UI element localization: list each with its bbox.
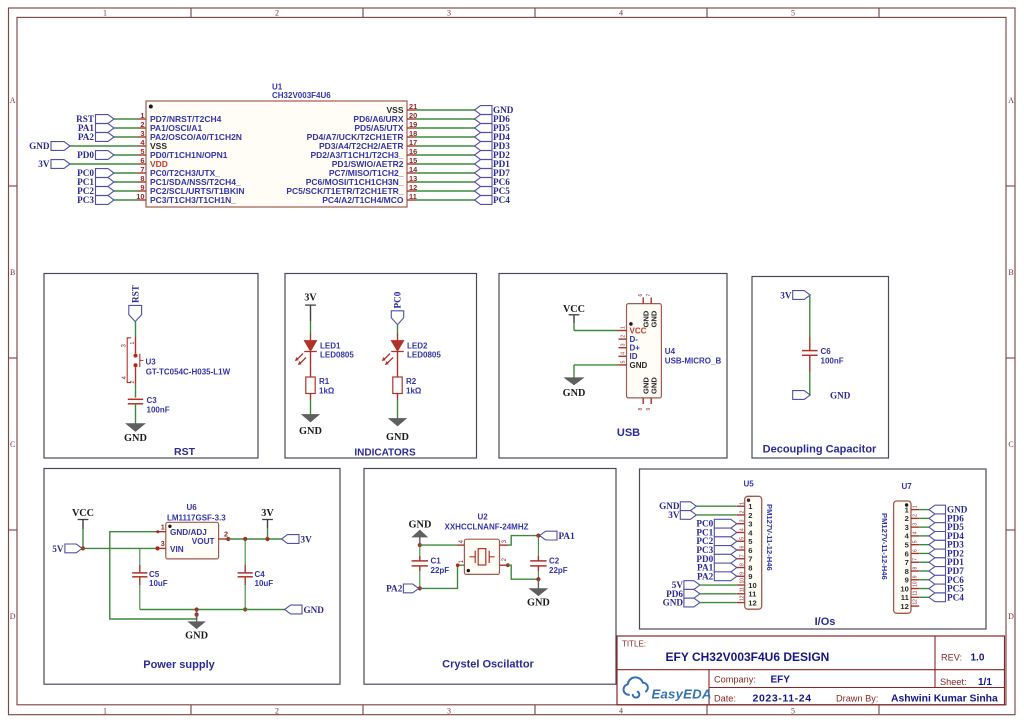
svg-text:6: 6 (905, 549, 909, 558)
svg-text:3: 3 (161, 539, 165, 548)
U5 pin 1 (737, 505, 745, 507)
svg-text:8: 8 (140, 174, 144, 183)
svg-text:B: B (10, 268, 15, 277)
wire (114, 127, 138, 129)
svg-text:EasyEDA: EasyEDA (652, 687, 712, 702)
svg-text:5V: 5V (52, 544, 64, 554)
svg-text:11: 11 (748, 590, 757, 599)
connector U5 PM127V-11-12-H46 (745, 496, 762, 609)
U1 pin 1 PD7/NRST/T2CH4 (138, 118, 146, 120)
svg-text:Decoupling Capacitor: Decoupling Capacitor (763, 444, 877, 456)
wire (114, 190, 138, 192)
svg-text:C5: C5 (149, 570, 160, 579)
svg-text:A: A (1008, 96, 1014, 105)
U1 pin 6 VDD (138, 163, 146, 165)
wire (700, 602, 737, 604)
LED LED1 LED0805 (310, 334, 312, 341)
svg-text:2023-11-24: 2023-11-24 (753, 693, 812, 705)
svg-text:D: D (1008, 612, 1014, 621)
svg-text:GND: GND (563, 388, 586, 399)
svg-text:EFY CH32V003F4U6 DESIGN: EFY CH32V003F4U6 DESIGN (666, 650, 830, 664)
U1 pin 19 PD5/A5/UTX (407, 127, 416, 129)
U5 pin 6 (737, 549, 745, 551)
svg-text:9: 9 (740, 572, 746, 575)
svg-text:3: 3 (740, 519, 746, 522)
wire bottom rail (140, 609, 285, 611)
wire (696, 514, 736, 516)
svg-text:2: 2 (140, 120, 144, 129)
svg-text:U2: U2 (478, 513, 489, 522)
svg-text:2: 2 (275, 8, 279, 17)
ground (126, 424, 145, 432)
U1 pin 2 PA1/OSCI/A1 (138, 127, 146, 129)
svg-text:9: 9 (905, 576, 909, 585)
svg-text:PC4: PC4 (493, 195, 510, 205)
wire (919, 517, 929, 519)
svg-text:PA2: PA2 (386, 584, 403, 594)
svg-text:VCC: VCC (72, 508, 94, 519)
net port PA1 (540, 531, 557, 540)
ground (302, 415, 319, 422)
svg-text:INDICATORS: INDICATORS (354, 448, 416, 459)
svg-text:GND: GND (386, 432, 409, 443)
section box INDICATORS (285, 274, 477, 459)
svg-text:2: 2 (275, 706, 279, 715)
svg-text:2: 2 (620, 335, 626, 338)
svg-text:12: 12 (913, 599, 919, 605)
junction (81, 546, 85, 550)
wire GND/ADJ loop (110, 532, 197, 619)
svg-text:2: 2 (130, 381, 136, 384)
wire (70, 145, 138, 147)
svg-text:PC0: PC0 (393, 291, 403, 308)
svg-text:LM1117GSF-3.3: LM1117GSF-3.3 (167, 513, 226, 522)
capacitor C1 22pF (419, 545, 421, 556)
svg-text:D: D (10, 612, 16, 621)
svg-text:PC3/T1CH3/T1CH1N_: PC3/T1CH3/T1CH1N_ (150, 195, 236, 205)
svg-text:6: 6 (913, 549, 919, 552)
U1 pin 4 VSS (138, 145, 146, 147)
svg-text:GND: GND (185, 631, 208, 642)
svg-text:10: 10 (900, 584, 908, 593)
ground (xtal right) (537, 579, 539, 588)
net port GND (psu) (285, 605, 302, 614)
resistor R1 1k (306, 377, 315, 394)
svg-text:8: 8 (748, 563, 752, 572)
capacitor C2 22pF (537, 536, 539, 556)
svg-text:Sheet:: Sheet: (940, 677, 967, 687)
connector U7 PM127V-11-12-H46 (894, 501, 911, 613)
wire (919, 596, 929, 598)
svg-text:9: 9 (646, 408, 652, 411)
U4 pin 4 ID (619, 355, 627, 357)
wire (574, 364, 619, 366)
svg-text:GND: GND (630, 361, 648, 370)
wire (310, 400, 312, 415)
U7 pin 5 (911, 544, 919, 546)
svg-text:7: 7 (913, 558, 919, 561)
svg-text:GND: GND (409, 520, 432, 531)
svg-text:1: 1 (913, 505, 919, 508)
svg-text:GND: GND (650, 310, 659, 327)
svg-text:3: 3 (447, 706, 451, 715)
svg-text:A: A (10, 96, 16, 105)
U1 pin 5 PD0/T1CH1N/OPN1 (138, 154, 146, 156)
svg-text:VIN: VIN (170, 545, 184, 554)
svg-text:U3: U3 (146, 358, 157, 367)
U5 pin 7 (737, 558, 745, 560)
svg-text:5: 5 (740, 537, 746, 540)
svg-text:1kΩ: 1kΩ (406, 387, 422, 396)
capacitor C5 10uF (139, 548, 141, 565)
svg-text:3: 3 (140, 129, 144, 138)
svg-text:PC4/A2/T1CH4/MCO: PC4/A2/T1CH4/MCO (322, 195, 404, 205)
svg-text:1: 1 (161, 522, 165, 531)
U5 pin 11 (737, 593, 745, 595)
svg-text:R2: R2 (406, 377, 417, 386)
svg-text:USB-MICRO_B: USB-MICRO_B (665, 357, 722, 366)
svg-text:1: 1 (130, 342, 136, 345)
wire (573, 315, 575, 323)
svg-text:22pF: 22pF (431, 566, 450, 575)
svg-text:RST: RST (174, 446, 196, 458)
svg-text:I/Os: I/Os (815, 616, 836, 628)
svg-text:C: C (1008, 440, 1013, 449)
svg-text:LED0805: LED0805 (407, 351, 441, 360)
svg-text:100nF: 100nF (821, 357, 844, 366)
wire (919, 588, 929, 590)
svg-text:Ashwini Kumar Sinha: Ashwini Kumar Sinha (891, 694, 998, 705)
U7 pin 7 (911, 561, 919, 563)
regulator U6 LM1117GSF-3.3 (166, 522, 219, 559)
U7 pin 8 (911, 570, 919, 572)
svg-text:PM127V-11-12-H46: PM127V-11-12-H46 (880, 513, 889, 580)
svg-text:C2: C2 (549, 557, 560, 566)
switch U3 GT-TC054C-H035-L1W (135, 337, 137, 354)
svg-text:7: 7 (905, 558, 909, 567)
junction (536, 577, 540, 581)
svg-text:2: 2 (905, 514, 909, 523)
wire 5V to VIN (82, 547, 157, 549)
svg-text:5: 5 (620, 360, 626, 363)
svg-text:1: 1 (103, 8, 107, 17)
crystal glyph (470, 556, 476, 558)
U1 pin 8 PC1/SDA/NSS/T2CH4_ (138, 181, 146, 183)
svg-text:U5: U5 (744, 480, 755, 489)
U5 pin 9 (737, 575, 745, 577)
wire pin3 to PA1 (508, 536, 540, 546)
resistor R2 1k (393, 377, 402, 394)
U1 pin 13 PC6/MOSI/T1CH1CH3N_ (407, 181, 416, 183)
svg-text:TITLE:: TITLE: (622, 640, 646, 649)
U3 actuator (139, 354, 141, 367)
wire (114, 136, 138, 138)
junction (418, 543, 422, 547)
svg-text:C3: C3 (147, 396, 158, 405)
svg-text:1: 1 (140, 111, 144, 120)
svg-text:6: 6 (140, 156, 144, 165)
svg-text:C: C (10, 440, 15, 449)
svg-text:C1: C1 (431, 557, 442, 566)
wire (919, 552, 929, 554)
wire (416, 154, 475, 156)
wire (416, 145, 475, 147)
svg-text:1: 1 (103, 706, 107, 715)
svg-text:LED1: LED1 (320, 342, 341, 351)
section box USB (499, 274, 727, 459)
U4 shield pins GND (bottom) (642, 398, 644, 404)
svg-text:8: 8 (905, 567, 909, 576)
svg-text:11: 11 (913, 590, 919, 595)
svg-text:GND: GND (304, 605, 325, 615)
svg-text:12: 12 (900, 602, 908, 611)
section box RST (44, 274, 258, 459)
U3 side bar pins 3-4 (127, 338, 131, 383)
section box I/Os (640, 469, 987, 629)
svg-text:GND: GND (29, 141, 50, 151)
wire PA2 to pin1 (420, 565, 465, 588)
wire (919, 535, 929, 537)
svg-text:B: B (1008, 268, 1013, 277)
U1 pin-1 marker dot (149, 105, 153, 109)
svg-text:11: 11 (740, 587, 746, 592)
U7 pin 10 (911, 588, 919, 590)
svg-text:REV:: REV: (941, 653, 962, 663)
svg-text:3V: 3V (38, 159, 50, 169)
svg-text:XXHCCLNANF-24MHZ: XXHCCLNANF-24MHZ (445, 522, 529, 531)
svg-text:GT-TC054C-H035-L1W: GT-TC054C-H035-L1W (146, 368, 231, 377)
wire VOUT to 3V (228, 538, 281, 540)
U7 pin 6 (911, 552, 919, 554)
svg-text:1kΩ: 1kΩ (319, 387, 335, 396)
wire pin2 to gnd (508, 565, 539, 579)
U2 pin 2 (500, 564, 508, 566)
svg-text:USB: USB (617, 427, 640, 439)
wire (135, 322, 137, 337)
junction (418, 586, 422, 590)
svg-text:8: 8 (740, 563, 746, 566)
U1 pin 10 PC3/T1CH3/T1CH1N_ (138, 199, 146, 201)
U1 pin 14 PC7/MISO/T1CH2_ (407, 172, 416, 174)
svg-text:2: 2 (740, 511, 746, 514)
wire (809, 372, 811, 395)
U5 pin 12 (737, 602, 745, 604)
svg-text:VOUT: VOUT (192, 537, 215, 546)
U2 pin 3 (500, 544, 508, 546)
LED LED2 LED0805 (397, 334, 399, 341)
ground (psu) (196, 610, 198, 622)
svg-text:C4: C4 (255, 570, 266, 579)
wire (135, 404, 137, 424)
svg-text:7: 7 (748, 555, 752, 564)
ground (usb) (565, 378, 584, 385)
svg-text:GND: GND (663, 598, 684, 608)
wire to pin4 (420, 544, 458, 546)
U7 pin 12 (911, 605, 919, 607)
wire (416, 190, 475, 192)
svg-text:PC3: PC3 (77, 195, 94, 205)
svg-text:2: 2 (748, 511, 752, 520)
EasyEDA logo (624, 677, 648, 697)
U1 pin 12 PC5/SCK/T1ETR/T2CH1ETR_ (407, 190, 416, 192)
wire (700, 593, 737, 595)
svg-text:Date:: Date: (714, 694, 736, 704)
svg-text:RST: RST (130, 285, 140, 303)
wire (135, 385, 137, 398)
svg-text:PA2: PA2 (697, 571, 714, 581)
capacitor C3 100nF (128, 398, 143, 400)
wire (696, 505, 736, 507)
svg-text:PA2: PA2 (78, 132, 95, 142)
svg-text:22pF: 22pF (549, 566, 568, 575)
U1 pin 15 PD1/SWIO/AETR2 (407, 163, 416, 165)
wire (416, 136, 475, 138)
svg-text:1.0: 1.0 (971, 653, 985, 664)
wire (416, 163, 475, 165)
svg-text:6: 6 (748, 546, 752, 555)
svg-text:10: 10 (740, 578, 746, 584)
wire (919, 579, 929, 581)
capacitor C4 10uF (243, 537, 247, 541)
U1 pin 7 PC0/T2CH3/UTX_ (138, 172, 146, 174)
svg-text:Company:: Company: (714, 675, 756, 685)
svg-text:GND: GND (299, 426, 322, 437)
wire (114, 199, 138, 201)
svg-text:9: 9 (748, 572, 752, 581)
wire (114, 172, 138, 174)
net port 3V (psu right) (282, 535, 300, 544)
wire (82, 529, 84, 548)
U7 pin 2 (911, 517, 919, 519)
ground (389, 419, 406, 426)
svg-text:GND: GND (650, 377, 659, 394)
section box Decoupling Capacitor (752, 277, 889, 459)
svg-text:3: 3 (905, 523, 909, 532)
wire (919, 561, 929, 563)
svg-text:4: 4 (619, 706, 623, 715)
U2 pin 4 (458, 544, 465, 546)
svg-text:4: 4 (619, 8, 623, 17)
svg-text:7: 7 (740, 554, 746, 557)
U1 pin 9 PC2/SCL/URTS/T1BKIN (138, 190, 146, 192)
U1 pin 20 PD6/A6/URX (407, 118, 416, 120)
svg-text:8: 8 (638, 408, 644, 411)
U3 contact dots (134, 354, 138, 358)
svg-text:1: 1 (740, 502, 746, 505)
svg-text:3V: 3V (780, 291, 792, 301)
junction (536, 534, 540, 538)
svg-text:Drawn By:: Drawn By: (836, 694, 878, 704)
U5 pin 8 (737, 567, 745, 569)
wire (397, 352, 399, 378)
U7 pin 9 (911, 579, 919, 581)
svg-text:1: 1 (620, 326, 626, 329)
svg-text:4: 4 (740, 528, 746, 531)
U5 pin 5 (737, 540, 745, 542)
net port GND (decoupling) (793, 391, 811, 400)
U1 pin 11 PC4/A2/T1CH4/MCO (407, 199, 416, 201)
svg-text:10: 10 (748, 581, 756, 590)
U5 pin 4 (737, 531, 745, 533)
wire (416, 199, 475, 201)
svg-text:PA1: PA1 (559, 531, 576, 541)
svg-text:GND: GND (124, 433, 147, 444)
svg-text:EFY: EFY (771, 675, 791, 686)
svg-text:12: 12 (740, 595, 746, 601)
wire (114, 118, 138, 120)
svg-text:C6: C6 (821, 347, 832, 356)
svg-text:8: 8 (913, 567, 919, 570)
svg-text:PC4: PC4 (947, 592, 964, 602)
wire (416, 172, 475, 174)
U4 pin 5 GND (619, 364, 627, 366)
op-amp U1 CH32V003F4U6 microcontroller (146, 101, 407, 207)
svg-text:4: 4 (620, 352, 626, 355)
svg-text:PM127V-11-12-H46: PM127V-11-12-H46 (765, 504, 774, 571)
wire (919, 570, 929, 572)
svg-text:100nF: 100nF (147, 406, 170, 415)
svg-text:GND: GND (830, 391, 851, 401)
wire (114, 181, 138, 183)
svg-text:3: 3 (913, 523, 919, 526)
svg-text:6: 6 (638, 294, 644, 297)
svg-text:11: 11 (901, 593, 910, 602)
wire (397, 325, 399, 334)
svg-text:3V: 3V (668, 510, 680, 520)
U5 pin 10 (737, 584, 745, 586)
junction (195, 607, 199, 611)
svg-text:U6: U6 (187, 503, 198, 512)
wire (397, 400, 399, 419)
wire (919, 526, 929, 528)
wire (700, 584, 737, 586)
U1 pin 17 PD3/A4/T2CH2/AETR (407, 145, 416, 147)
U5 pin 2 (737, 514, 745, 516)
svg-text:10uF: 10uF (149, 579, 168, 588)
U6 pin 1 GND/ADJ (158, 531, 166, 533)
svg-text:5: 5 (140, 147, 144, 156)
svg-text:9: 9 (913, 575, 919, 578)
svg-text:7: 7 (646, 294, 652, 297)
svg-text:2: 2 (224, 530, 228, 539)
svg-text:LED2: LED2 (407, 342, 428, 351)
svg-text:9: 9 (140, 183, 144, 192)
svg-text:3V: 3V (304, 293, 317, 304)
wire (416, 118, 475, 120)
wire (310, 305, 312, 321)
svg-text:5: 5 (791, 8, 795, 17)
U6 pin 2 VOUT (219, 538, 228, 540)
U7 pin 3 (911, 526, 919, 528)
svg-text:U4: U4 (665, 347, 676, 356)
title block (617, 636, 1005, 705)
U1 pin 21 VSS (407, 109, 416, 111)
svg-text:7: 7 (140, 165, 144, 174)
svg-text:CH32V003F4U6: CH32V003F4U6 (272, 91, 331, 100)
svg-text:10uF: 10uF (255, 579, 274, 588)
U1 pin 3 PA2/OSCO/A0/T1CH2N (138, 136, 146, 138)
svg-text:10: 10 (913, 581, 919, 587)
U4 pin 1 VCC (619, 330, 627, 332)
svg-text:Crystel Oscilattor: Crystel Oscilattor (442, 659, 534, 671)
connector U4 USB-MICRO_B (627, 304, 662, 398)
svg-text:LED0805: LED0805 (320, 351, 354, 360)
svg-text:U7: U7 (902, 482, 913, 491)
wire (416, 109, 475, 111)
U5 pin 3 (737, 523, 745, 525)
U7 pin 4 (911, 535, 919, 537)
U1 pin 18 PD4/A7/UCK/T2CH1ETR (407, 136, 416, 138)
